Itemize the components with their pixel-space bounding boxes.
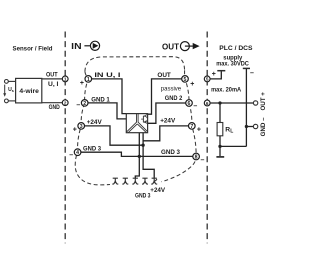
T-BUS pin 1 [112, 178, 118, 184]
svg-text:+: + [190, 81, 194, 88]
transistor Q1 (passive output) [141, 114, 147, 123]
sensor terminal circle top [5, 80, 9, 84]
svg-text:GND –: GND – [260, 117, 267, 136]
wire terminal 1 to box top (IN) [92, 79, 127, 114]
junction RL top [218, 101, 221, 104]
svg-text:6: 6 [206, 101, 209, 106]
OUT flow icon [180, 42, 199, 51]
device terminal 4 [74, 149, 81, 156]
svg-text:GND 2: GND 2 [165, 95, 183, 102]
supply - rail [243, 68, 250, 146]
svg-text:2: 2 [83, 101, 86, 107]
wire 4-wire box GND to boundary circle 2 [42, 102, 63, 104]
svg-text:passive: passive [161, 85, 182, 92]
svg-text:GND: GND [49, 104, 61, 111]
zone separator left (Sensor/Field | IN) [64, 32, 66, 244]
device terminal 2 [81, 100, 88, 107]
T-BUS pin 5 (+24V) [151, 178, 157, 184]
boundary circle 2 [62, 100, 68, 106]
ground [216, 156, 224, 158]
device dashed outline: top arc [85, 57, 185, 72]
svg-text:GND 3: GND 3 [161, 149, 180, 156]
supply + tick [210, 71, 225, 79]
svg-text:IN U, I: IN U, I [94, 72, 120, 79]
svg-text:7: 7 [190, 124, 193, 130]
wire GND3 bus terminal 4 to terminal 8 [81, 152, 193, 156]
sensor terminal circle bottom [5, 99, 9, 103]
T-BUS pin 4 [142, 178, 148, 184]
svg-text:+: + [212, 71, 216, 78]
svg-text:OUT: OUT [46, 72, 58, 79]
zone separator right (OUT | PLC/DCS) [206, 32, 208, 244]
wire terminal 2 to box left (GND 1) [88, 103, 127, 119]
svg-text:OUT: OUT [162, 42, 179, 51]
svg-text:max. 30VDC: max. 30VDC [216, 61, 249, 68]
wire circle 6 to OUT+ post [210, 102, 253, 104]
binding post OUT+ [253, 101, 257, 105]
svg-text:PLC / DCS: PLC / DCS [219, 45, 253, 52]
svg-text:OUT +: OUT + [260, 92, 267, 111]
T-BUS pin 3 (GND 3) [132, 178, 138, 184]
wire terminal 6 GND2 to box right [148, 103, 186, 123]
svg-text:8: 8 [195, 154, 198, 160]
wire 4-wire box OUT to boundary circle 1 [42, 78, 63, 80]
svg-text:+24V: +24V [87, 119, 103, 126]
svg-text:–: – [200, 157, 204, 164]
wire GND- post to rail [246, 126, 253, 128]
junction RL bottom [218, 145, 221, 148]
junction GND3 bus [138, 155, 141, 158]
svg-text:RL: RL [225, 127, 233, 135]
device terminal 8 [193, 153, 200, 160]
svg-text:GND 1: GND 1 [91, 96, 110, 103]
wire terminal 5 OUT to box top-right [148, 79, 182, 114]
svg-text:GND 3: GND 3 [135, 193, 151, 200]
svg-text:5: 5 [206, 77, 209, 82]
svg-text:IN: IN [71, 42, 82, 51]
svg-text:–: – [69, 152, 73, 159]
device terminal 6 [186, 100, 193, 107]
svg-text:+: + [80, 80, 84, 87]
wire sensor top to 4-wire box [8, 80, 15, 82]
device terminal 5 [182, 76, 189, 83]
wire RL bottom to - rail [220, 145, 246, 147]
svg-text:U, I: U, I [48, 81, 59, 88]
resistor RL [217, 103, 223, 156]
svg-text:1: 1 [87, 77, 90, 83]
svg-text:3: 3 [80, 124, 83, 130]
Us source arrow [3, 85, 6, 97]
svg-text:OUT: OUT [157, 72, 170, 79]
svg-text:4: 4 [76, 150, 79, 156]
svg-text:–: – [76, 102, 80, 109]
svg-text:+: + [73, 127, 77, 134]
svg-text:5: 5 [184, 77, 187, 83]
svg-text:+: + [197, 127, 201, 134]
svg-text:2: 2 [64, 101, 67, 106]
junction rail GND- [245, 125, 248, 128]
device dashed outline: right terminal column [162, 70, 197, 181]
svg-text:Us: Us [8, 87, 14, 93]
isolator box U1 [126, 114, 147, 133]
svg-text:Sensor / Field: Sensor / Field [13, 46, 53, 53]
svg-text:+24V: +24V [150, 187, 166, 194]
svg-text:–: – [250, 70, 254, 77]
svg-text:max. 20mA: max. 20mA [211, 86, 241, 93]
wire box bottom GND3 feed to bus pin 3 [135, 133, 139, 179]
T-BUS pin 2 [122, 178, 128, 184]
svg-text:4-wire: 4-wire [19, 88, 39, 95]
device terminal 1 [85, 76, 92, 83]
svg-text:–: – [193, 103, 197, 110]
device dashed outline: left terminal column [75, 72, 110, 185]
svg-text:1: 1 [64, 77, 67, 82]
svg-text:+24V: +24V [160, 117, 176, 124]
isolation Y barrier [127, 114, 148, 133]
wire box bottom +24V feed to bus pin 5 [143, 133, 154, 179]
boundary circle 5 [204, 76, 210, 82]
svg-text:GND 3: GND 3 [83, 146, 101, 153]
boundary circle 1 [62, 76, 68, 82]
wire terminal 7 +24V to bus [143, 126, 188, 141]
junction +24V bus [141, 144, 144, 147]
device terminal 3 [78, 123, 85, 130]
device terminal 7 [189, 123, 196, 130]
svg-text:6: 6 [188, 101, 191, 107]
binding post GND- [253, 124, 257, 128]
wire terminal 3 +24V down to bus [85, 126, 144, 145]
4-wire transmitter box [16, 78, 42, 103]
wire sensor bottom to 4-wire box [8, 100, 15, 102]
IN flow icon [84, 41, 99, 50]
boundary circle 6 [204, 100, 210, 106]
